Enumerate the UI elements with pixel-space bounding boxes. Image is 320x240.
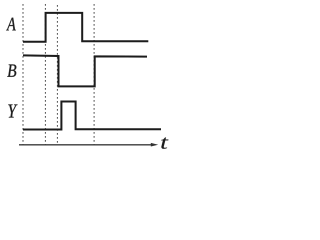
label t [161,138,168,149]
waveform Y [23,102,161,130]
guide dashed line t2 [44,4,46,145]
guide dashed line t4 [93,4,95,145]
time axis [19,144,153,146]
guide dashed line t3 [56,5,58,145]
guide dashed line t1 [22,4,24,145]
waveform A [23,13,148,42]
label Y [8,105,17,118]
waveform B [23,55,147,86]
label B [7,65,16,77]
label A [6,18,16,31]
axis arrowhead [151,143,158,147]
